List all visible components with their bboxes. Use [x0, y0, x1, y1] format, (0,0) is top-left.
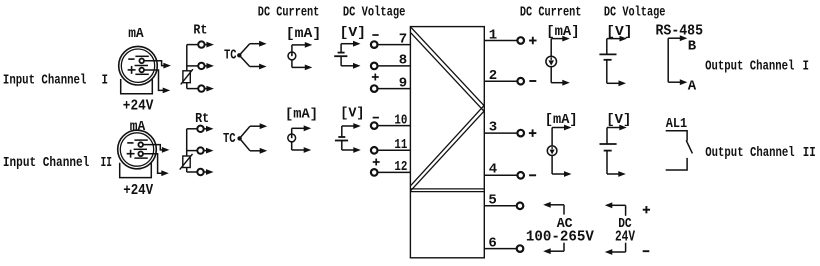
RTD Rt2 resistor body: [183, 156, 190, 168]
svg-text:1: 1: [489, 27, 497, 43]
svg-text:Rt: Rt: [195, 111, 209, 127]
wire T2 lower output to terminal 12: [143, 154, 162, 173]
RTD Rt1 terminal a: [198, 41, 204, 47]
AC supply bracket: [543, 202, 551, 208]
svg-text:4: 4: [489, 162, 497, 178]
polarity plus at terminal 1: [529, 40, 537, 42]
RTD Rt1 terminal b: [198, 63, 204, 69]
svg-text:DC Current: DC Current: [258, 5, 320, 21]
svg-text:mA: mA: [128, 26, 144, 42]
power section divider double line: [410, 188, 484, 190]
polarity minus at terminal 4: [529, 174, 536, 176]
svg-text:9: 9: [399, 75, 407, 91]
transmitter terminal circles: [139, 59, 144, 64]
svg-text:2: 2: [489, 68, 497, 84]
svg-text:+24V: +24V: [123, 98, 154, 115]
transmitter plus mark: [127, 153, 135, 155]
DC supply bracket: [605, 202, 613, 208]
svg-text:I: I: [102, 72, 109, 88]
svg-text:[mA]: [mA]: [285, 106, 318, 122]
svg-text:Output Channel: Output Channel: [705, 59, 794, 75]
polarity plus DC supply: [643, 209, 650, 211]
transmitter minus mark: [127, 142, 133, 144]
polarity minus at terminal 2: [529, 80, 536, 82]
RTD Rt2 terminal c: [197, 169, 203, 175]
wire T1 upper output to terminal 8: [144, 61, 164, 66]
battery symbol output ch II: [606, 128, 608, 145]
svg-text:[V]: [V]: [606, 112, 631, 128]
svg-text:12: 12: [394, 159, 407, 175]
svg-text:[mA]: [mA]: [286, 26, 321, 42]
transmitter terminal circles: [138, 142, 143, 147]
svg-text:7: 7: [399, 31, 407, 47]
+24V supply bracket of T2: [120, 163, 152, 178]
svg-text:TC: TC: [224, 48, 237, 64]
polarity minus DC supply: [643, 250, 650, 252]
terminal 3: [484, 132, 517, 134]
svg-text:100-265V: 100-265V: [526, 228, 594, 245]
battery symbol output ch I: [606, 39, 608, 55]
svg-text:DC Voltage: DC Voltage: [343, 5, 406, 21]
svg-text:11: 11: [394, 137, 407, 153]
svg-text:DC Current: DC Current: [520, 4, 582, 20]
svg-text:5: 5: [488, 193, 496, 209]
terminal 5: [484, 205, 516, 207]
wire T1 lower output to terminal 9: [144, 70, 163, 90]
svg-text:II: II: [101, 155, 113, 171]
current source symbol output ch II: [551, 128, 553, 146]
RTD Rt2 terminal b: [197, 147, 203, 153]
terminal 7: [378, 44, 411, 46]
isolation barrier diagonal pair lower: [411, 106, 484, 186]
polarity plus at terminal 9: [372, 76, 379, 78]
RTD Rt2 bus wire: [186, 129, 188, 172]
RTD Rt1 resistor body: [183, 71, 190, 83]
terminal 2: [484, 80, 517, 82]
polarity plus at terminal 12: [373, 161, 380, 163]
svg-text:II: II: [803, 145, 816, 161]
transmitter minus mark: [128, 58, 134, 60]
transmitter plus mark: [128, 69, 136, 71]
svg-text:[V]: [V]: [340, 106, 364, 122]
polarity minus at terminal 10: [373, 117, 379, 119]
battery symbol input ch II (DC voltage): [341, 126, 343, 137]
svg-text:Output Channel: Output Channel: [705, 145, 794, 161]
terminal 6: [484, 248, 516, 250]
svg-text:DC Voltage: DC Voltage: [604, 4, 666, 20]
isolation barrier diagonal pair upper: [411, 27, 484, 105]
+24V supply bracket of T1: [121, 79, 153, 94]
svg-text:24V: 24V: [615, 228, 635, 245]
current source symbol input ch I: [288, 52, 296, 60]
RTD Rt1 bus wire: [186, 45, 188, 89]
terminal 4: [484, 174, 517, 176]
svg-text:6: 6: [488, 235, 496, 251]
RS-485 port bracket: [667, 38, 669, 82]
polarity plus at terminal 3: [529, 132, 537, 134]
svg-text:+24V: +24V: [123, 182, 153, 199]
svg-text:Rt: Rt: [193, 23, 207, 39]
svg-text:3: 3: [489, 119, 497, 135]
wire T2 upper output to terminal 11: [143, 145, 163, 150]
current source symbol input ch II: [288, 134, 296, 142]
svg-text:8: 8: [399, 53, 407, 69]
terminal 8: [378, 65, 411, 67]
svg-text:B: B: [688, 38, 697, 54]
svg-text:TC: TC: [223, 131, 236, 147]
svg-text:Input Channel: Input Channel: [3, 155, 89, 171]
terminal 9: [378, 88, 411, 90]
terminal 10: [378, 125, 411, 127]
svg-text:[V]: [V]: [340, 25, 367, 41]
transmitter terminal bars: [135, 55, 148, 57]
battery symbol input ch I (DC voltage): [340, 44, 342, 53]
terminal 12: [378, 171, 411, 173]
relay contact AL1: [666, 131, 687, 141]
thermocouple TC2: [237, 136, 241, 140]
RTD Rt2 terminal a: [197, 126, 203, 132]
current source symbol output ch I: [550, 39, 552, 56]
svg-text:10: 10: [394, 112, 407, 128]
transmitter T1 (2-wire mA, input channel I): [119, 46, 158, 85]
svg-text:Input Channel: Input Channel: [3, 72, 87, 88]
thermocouple TC1: [237, 53, 241, 57]
polarity minus at terminal 7: [372, 34, 378, 36]
svg-text:[mA]: [mA]: [545, 112, 578, 128]
RTD Rt1 terminal c: [198, 85, 204, 91]
transmitter T2 (2-wire mA, input channel II): [118, 130, 157, 169]
terminal 11: [378, 149, 411, 151]
transmitter terminal bars: [134, 139, 147, 141]
svg-text:AL1: AL1: [666, 116, 687, 132]
terminal 1: [484, 40, 517, 42]
svg-text:RS-485: RS-485: [656, 23, 704, 40]
isolator block U1 outline: [410, 27, 484, 258]
svg-text:A: A: [688, 79, 697, 95]
svg-text:I: I: [803, 59, 810, 75]
svg-text:[V]: [V]: [606, 24, 632, 40]
